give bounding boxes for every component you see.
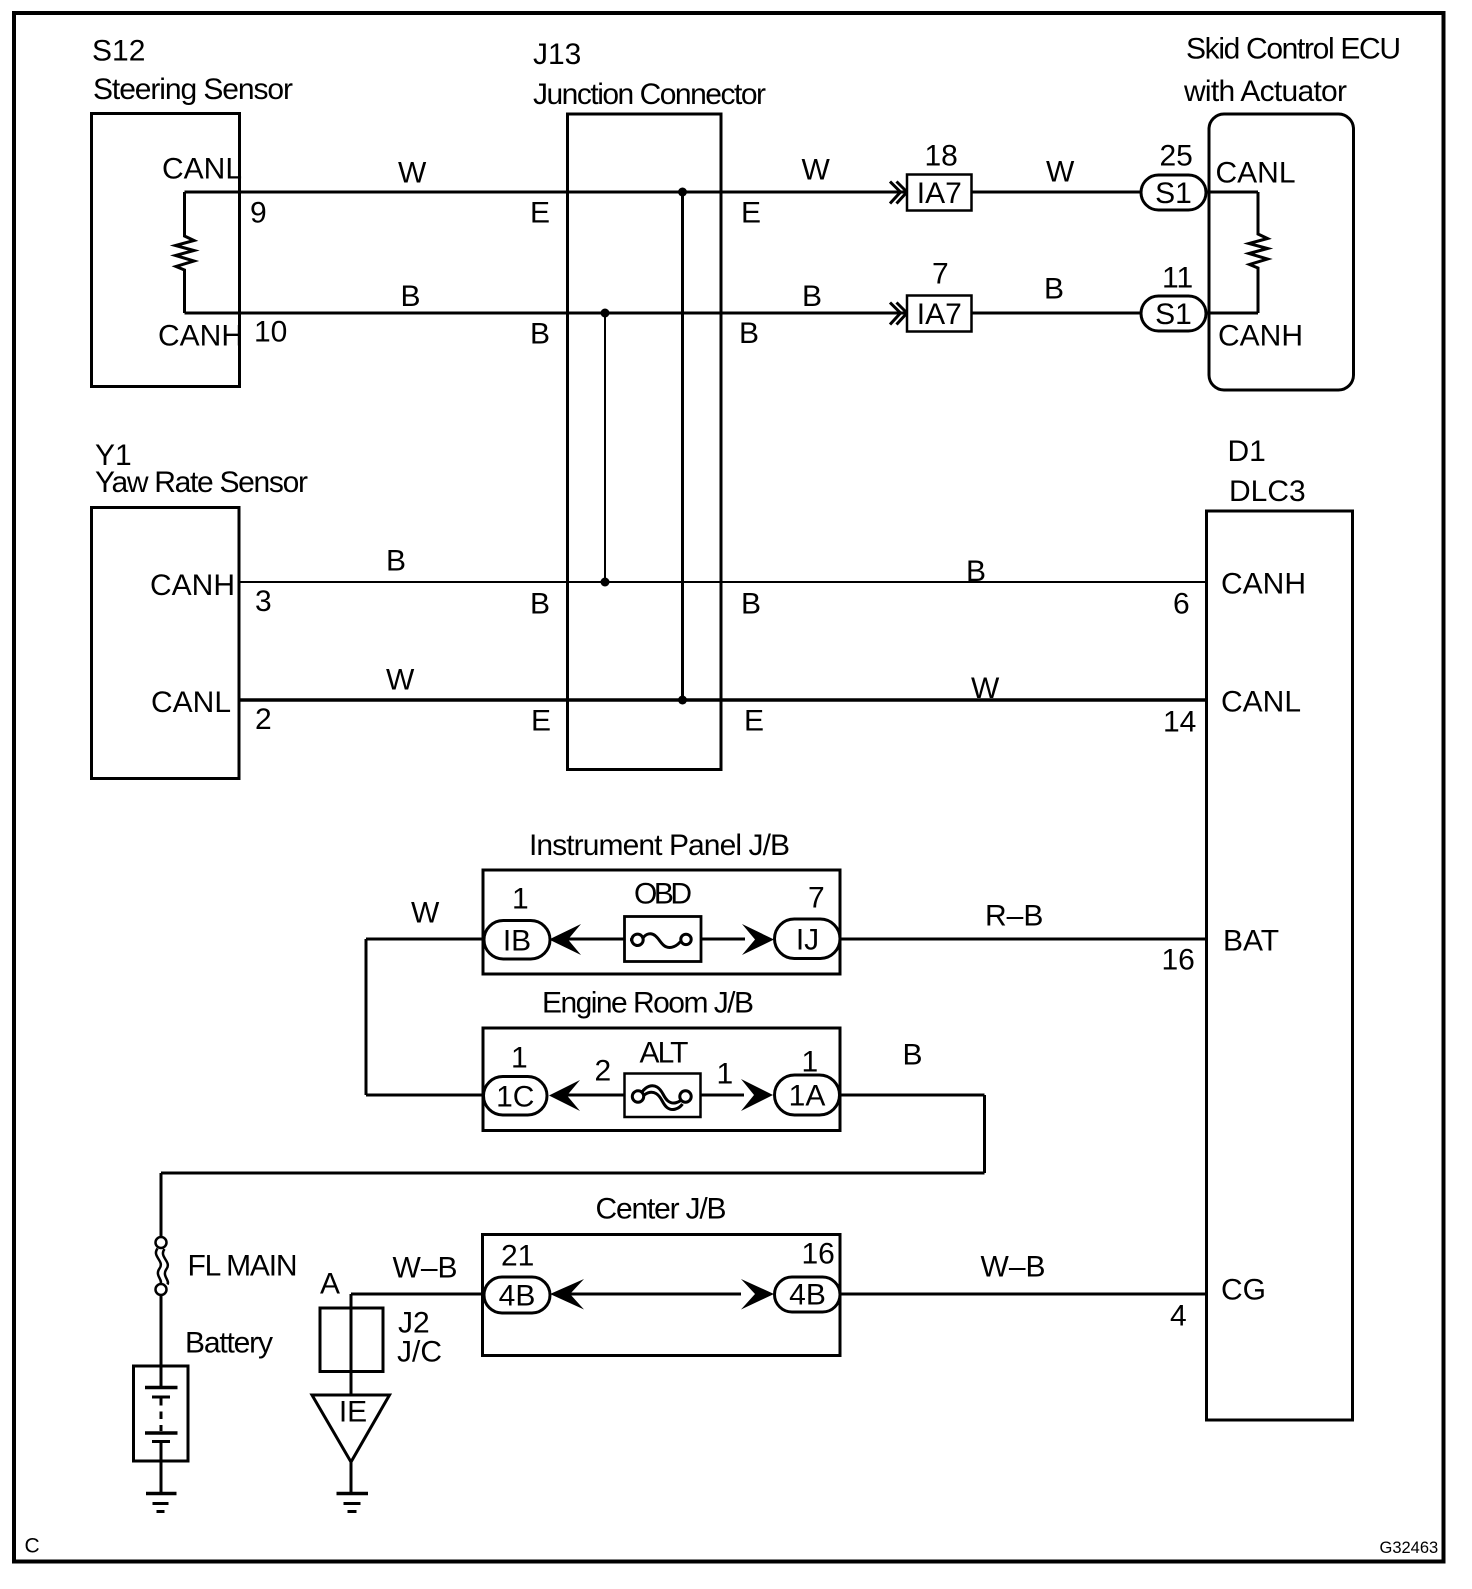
skid control ECU box — [1209, 114, 1354, 390]
svg-text:FL MAIN: FL MAIN — [188, 1250, 298, 1283]
svg-text:CANH: CANH — [1221, 568, 1306, 601]
wire CANH B (IA7 to S1) — [972, 312, 1142, 315]
svg-text:W–B: W–B — [393, 1252, 458, 1285]
junction connector J13 box — [568, 114, 722, 770]
svg-text:CANH: CANH — [1218, 320, 1303, 353]
connector IA7 box (wire1) — [907, 175, 972, 211]
wire CANL W (IA7 to S1) — [972, 191, 1142, 194]
wire right riser down — [983, 1095, 986, 1173]
connector 1A oval — [775, 1075, 840, 1115]
wire IB arrow to OBD fuse — [568, 938, 625, 941]
fusible link FL MAIN top circle — [156, 1237, 167, 1248]
connector S1 oval (wire1) — [1141, 175, 1206, 210]
battery box — [134, 1366, 189, 1461]
wire S1 to ECU resistor (CANL) — [1206, 191, 1258, 194]
svg-text:CANL: CANL — [1216, 157, 1296, 190]
svg-text:W: W — [386, 664, 415, 697]
svg-text:B: B — [530, 318, 550, 351]
junction dot wire1 W branch — [678, 188, 687, 197]
connector IJ oval — [775, 919, 841, 959]
ground below battery — [146, 1492, 177, 1496]
steering sensor S12 box — [92, 114, 240, 387]
svg-text:1C: 1C — [496, 1081, 534, 1114]
connector 1C oval — [484, 1077, 548, 1116]
arrow right (4B) — [741, 1279, 774, 1310]
engine room J/B box — [483, 1028, 840, 1131]
svg-text:C: C — [25, 1535, 40, 1558]
connector S1 oval (wire2) — [1141, 296, 1206, 331]
svg-text:1A: 1A — [789, 1080, 826, 1113]
svg-text:IB: IB — [503, 925, 531, 958]
wire 4B to DLC3 CG pin 4 (W-B) — [840, 1293, 1207, 1296]
junction dot wire4 W branch — [678, 696, 687, 705]
arrow left (4B) — [550, 1279, 584, 1310]
junction dot wire2 B branch — [601, 309, 610, 318]
svg-text:16: 16 — [1162, 944, 1195, 977]
arrow right (1A) — [741, 1079, 773, 1111]
yaw rate sensor Y1 box — [92, 508, 240, 779]
fusible link FL MAIN bottom circle — [156, 1284, 167, 1295]
svg-text:9: 9 — [250, 197, 267, 230]
connector IA7 box (wire2) — [907, 296, 972, 332]
svg-text:B: B — [903, 1039, 923, 1072]
wire yaw CANH B to DLC3 pin 6 — [239, 581, 1207, 583]
svg-text:Yaw Rate Sensor: Yaw Rate Sensor — [95, 466, 308, 499]
svg-text:6: 6 — [1173, 588, 1190, 621]
svg-text:2: 2 — [255, 703, 272, 736]
fuse OBD box — [625, 917, 702, 962]
svg-text:J13: J13 — [533, 38, 581, 71]
svg-text:Junction Connector: Junction Connector — [533, 78, 766, 111]
wire FL riser down — [160, 1173, 163, 1238]
wire battery to ground — [160, 1442, 163, 1493]
junction dot wire3 B branch — [601, 578, 610, 587]
svg-text:ALT: ALT — [640, 1037, 689, 1070]
wire ALT fuse to 1A arrow — [700, 1094, 744, 1097]
wire OBD fuse to IJ arrow — [701, 938, 745, 941]
svg-text:25: 25 — [1160, 140, 1193, 173]
svg-text:S12: S12 — [92, 35, 145, 68]
svg-text:BAT: BAT — [1223, 925, 1279, 958]
svg-text:1: 1 — [717, 1058, 734, 1091]
arrow left (1C) — [549, 1080, 580, 1111]
svg-text:Center J/B: Center J/B — [596, 1193, 727, 1226]
svg-text:B: B — [386, 545, 406, 578]
svg-text:IA7: IA7 — [917, 177, 962, 210]
svg-text:10: 10 — [254, 316, 287, 349]
wire W to IB — [366, 938, 484, 941]
battery dashed center — [160, 1398, 163, 1431]
svg-text:W–B: W–B — [981, 1251, 1046, 1284]
svg-text:Steering Sensor: Steering Sensor — [93, 73, 293, 106]
svg-text:B: B — [739, 317, 759, 350]
svg-text:OBD: OBD — [634, 878, 692, 911]
fuse ALT box — [625, 1074, 701, 1118]
arrow right (IJ) — [742, 924, 774, 955]
wire between 4B arrows — [570, 1293, 741, 1296]
svg-text:W: W — [1046, 156, 1075, 189]
DLC3 connector box — [1207, 511, 1353, 1420]
connector 4B right oval — [775, 1277, 841, 1312]
battery plate long bottom — [145, 1431, 178, 1435]
wire W branch vertical in J13 — [681, 192, 684, 700]
svg-text:B: B — [1044, 273, 1064, 306]
svg-text:CANL: CANL — [162, 153, 242, 186]
svg-text:D1: D1 — [1228, 435, 1266, 468]
svg-text:R–B: R–B — [985, 900, 1043, 933]
svg-text:B: B — [401, 280, 421, 313]
resistor in steering sensor — [176, 192, 195, 313]
svg-text:CANH: CANH — [150, 569, 235, 602]
svg-text:2: 2 — [595, 1055, 612, 1088]
svg-text:4B: 4B — [789, 1279, 826, 1312]
svg-text:CG: CG — [1221, 1274, 1266, 1307]
wire IJ to DLC3 BAT pin 16 (R-B) — [840, 938, 1207, 941]
svg-text:3: 3 — [255, 585, 272, 618]
fuse OBD element — [630, 934, 681, 948]
battery plate short bottom — [152, 1440, 170, 1443]
svg-text:S1: S1 — [1155, 177, 1192, 210]
svg-text:with Actuator: with Actuator — [1183, 75, 1347, 108]
svg-text:B: B — [802, 280, 822, 313]
svg-text:1: 1 — [511, 1042, 528, 1075]
svg-text:Battery: Battery — [185, 1327, 273, 1360]
ground below IE — [337, 1492, 369, 1496]
svg-text:W: W — [411, 897, 440, 930]
wire left riser to 1C — [365, 939, 368, 1095]
svg-text:G32463: G32463 — [1380, 1539, 1439, 1557]
svg-text:1: 1 — [512, 883, 529, 916]
wire A riser through J2 — [350, 1294, 353, 1395]
connector IB oval — [484, 921, 550, 960]
svg-text:A: A — [320, 1268, 340, 1301]
wire IE to ground — [350, 1462, 353, 1492]
svg-text:J/C: J/C — [397, 1336, 442, 1369]
svg-text:DLC3: DLC3 — [1229, 475, 1306, 508]
battery plate short top — [152, 1396, 170, 1399]
svg-text:4: 4 — [1170, 1300, 1187, 1333]
wire CANH B (steering pin 10 to IA7) — [185, 312, 908, 315]
wire B branch vertical in J13 — [604, 313, 606, 582]
svg-text:CANH: CANH — [158, 320, 243, 353]
ground triangle IE — [312, 1395, 390, 1462]
svg-text:Skid Control ECU: Skid Control ECU — [1186, 33, 1401, 66]
wire yaw CANL W to DLC3 pin 14 — [239, 698, 1207, 702]
svg-text:E: E — [530, 197, 550, 230]
svg-text:CANL: CANL — [151, 686, 231, 719]
fusible link ALT element — [642, 1086, 684, 1103]
svg-text:W: W — [398, 157, 427, 190]
center J/B box — [483, 1235, 841, 1356]
wire S1 to ECU resistor (CANH) — [1206, 312, 1258, 315]
svg-text:11: 11 — [1162, 262, 1193, 295]
svg-text:B: B — [741, 588, 761, 621]
wire 1A to right riser (B) — [839, 1094, 985, 1097]
svg-text:IA7: IA7 — [917, 298, 962, 331]
wire riser to 1C horizontal — [366, 1094, 484, 1097]
svg-text:E: E — [531, 705, 551, 738]
svg-text:B: B — [966, 555, 986, 588]
wire A to 4B (W-B) — [351, 1293, 484, 1296]
svg-text:E: E — [741, 197, 761, 230]
svg-text:W: W — [802, 154, 831, 187]
svg-text:Engine Room J/B: Engine Room J/B — [542, 987, 754, 1020]
svg-text:4B: 4B — [499, 1280, 536, 1313]
svg-text:Instrument Panel J/B: Instrument Panel J/B — [529, 829, 790, 862]
svg-text:E: E — [744, 705, 764, 738]
arrow left (IB) — [549, 924, 581, 955]
wire 1C arrow to ALT fuse — [567, 1094, 625, 1097]
svg-text:18: 18 — [925, 140, 958, 173]
junction J2 J/C box — [320, 1308, 383, 1372]
wire FL MAIN to battery — [160, 1295, 163, 1387]
svg-text:CANL: CANL — [1221, 686, 1301, 719]
svg-text:W: W — [971, 672, 1000, 705]
svg-text:16: 16 — [802, 1238, 835, 1271]
svg-text:IE: IE — [339, 1396, 367, 1429]
wire bottom run to FL MAIN — [161, 1172, 985, 1175]
battery plate long top — [145, 1386, 178, 1390]
chevron into IA7 wire2 — [890, 303, 907, 325]
svg-text:21: 21 — [501, 1240, 534, 1273]
svg-text:S1: S1 — [1155, 298, 1192, 331]
connector 4B left oval — [484, 1277, 550, 1313]
wire CANL W (steering pin 9 to IA7) — [185, 191, 908, 194]
chevron into IA7 wire1 — [890, 182, 907, 204]
svg-text:7: 7 — [932, 258, 949, 291]
svg-text:7: 7 — [808, 882, 825, 915]
svg-text:B: B — [530, 588, 550, 621]
svg-text:IJ: IJ — [796, 924, 819, 957]
svg-text:14: 14 — [1163, 706, 1196, 739]
resistor in skid control ECU — [1249, 192, 1268, 313]
instrument panel J/B box — [483, 870, 840, 974]
fusible link FL MAIN element — [156, 1249, 161, 1285]
